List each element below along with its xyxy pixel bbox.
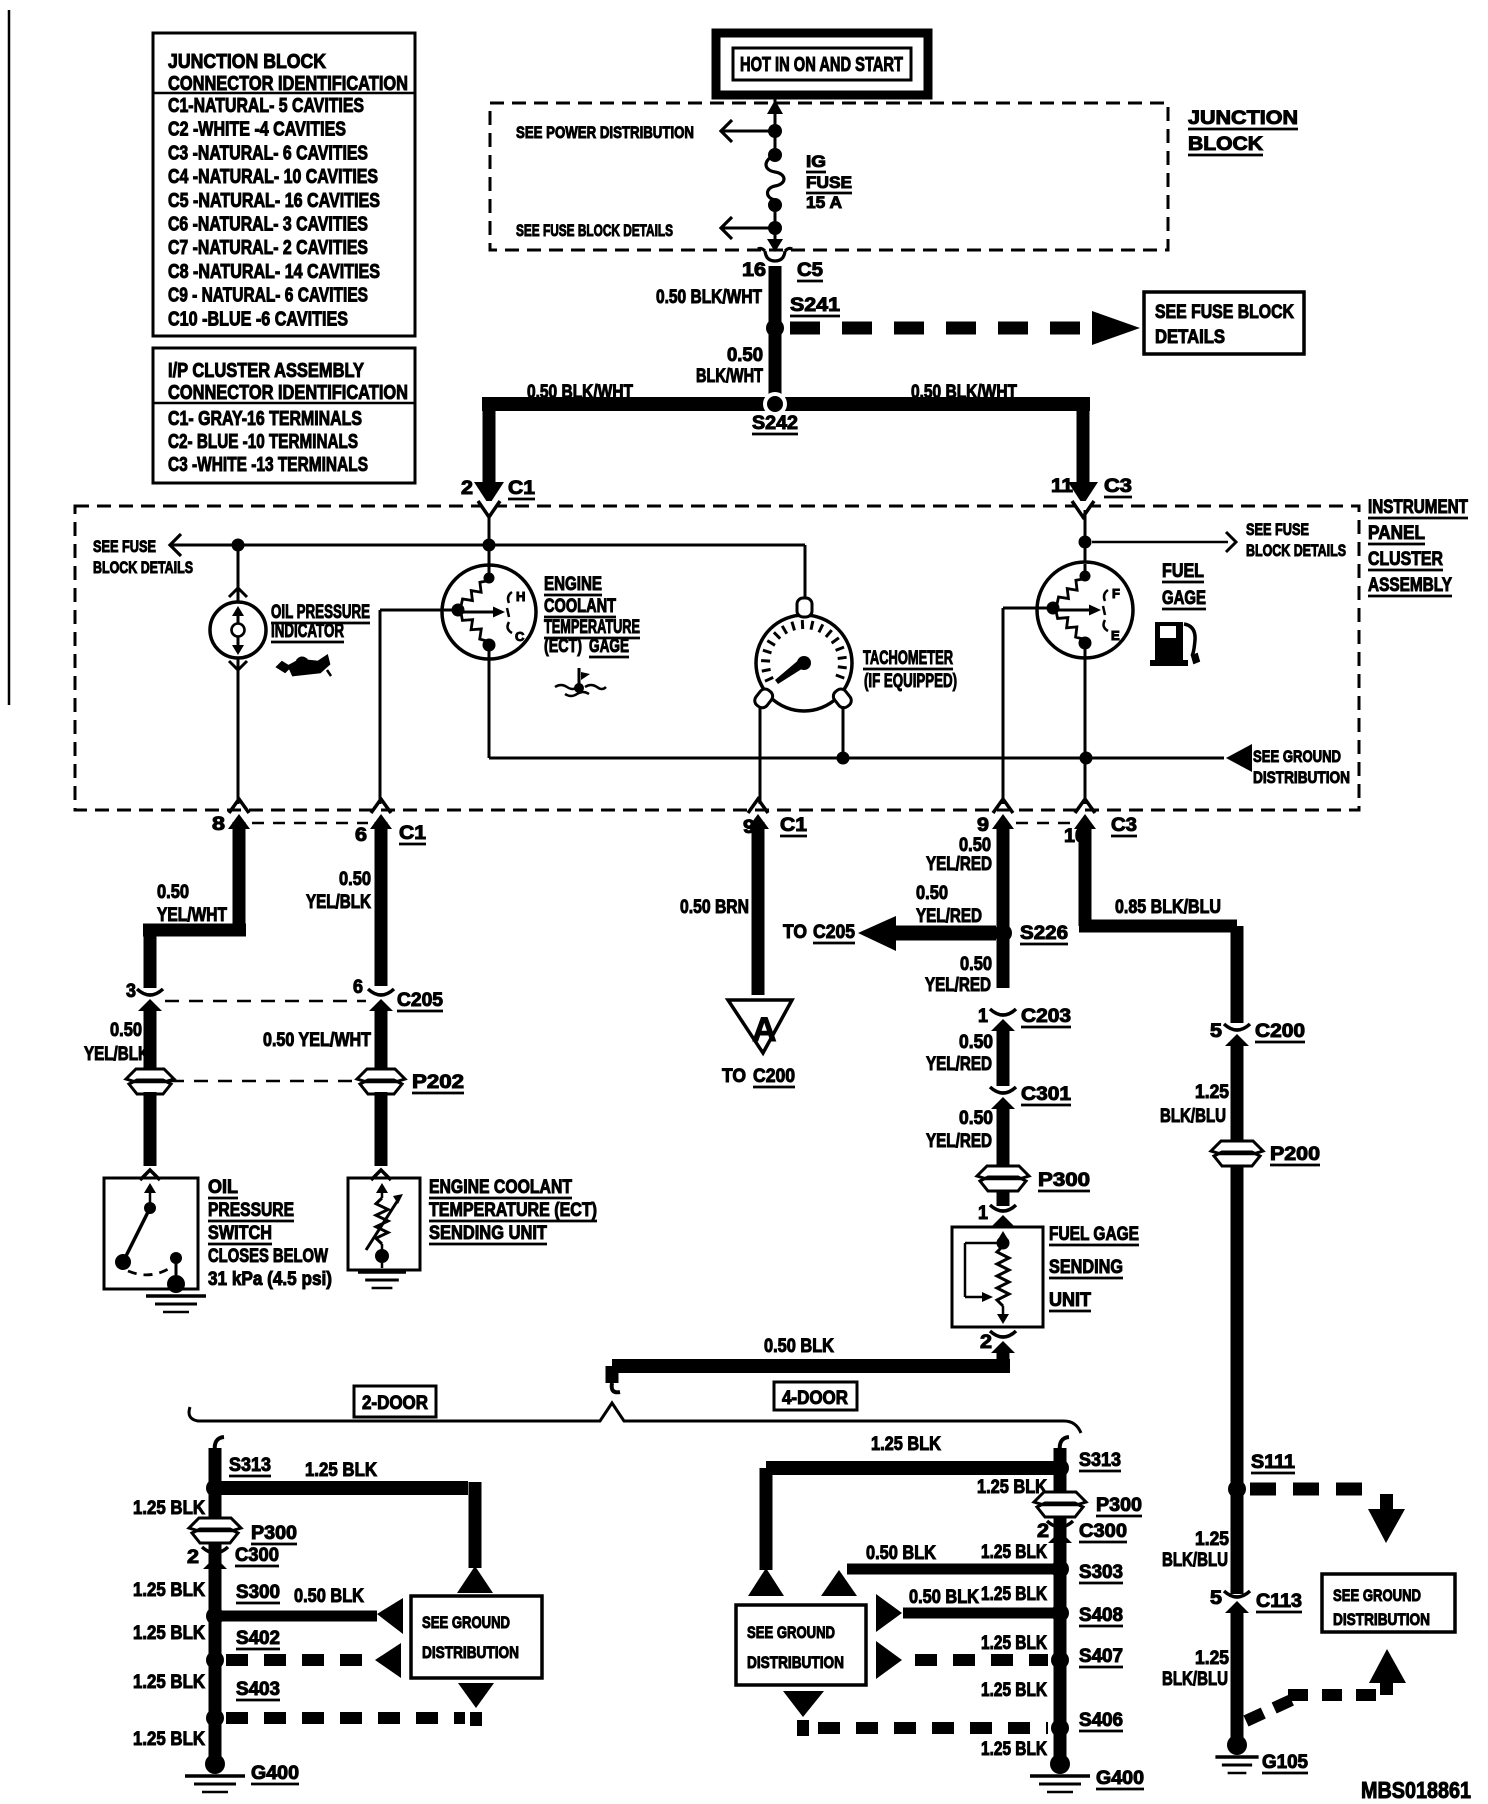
svg-text:P300: P300 (251, 1523, 297, 1544)
internal ground bus wire (489, 757, 1224, 760)
gauge scale marks H / C (508, 592, 512, 603)
connector fuel sender pin 1 (990, 1205, 1016, 1211)
svg-text:COOLANT: COOLANT (544, 596, 616, 617)
svg-text:ENGINE COOLANT: ENGINE COOLANT (429, 1177, 572, 1198)
fan arrow up to see ground distribution (458, 1683, 494, 1708)
see ground distribution box right (1322, 1574, 1455, 1632)
node fuse block tap (768, 221, 782, 235)
wire fork to junction (488, 516, 491, 545)
svg-text:JUNCTION BLOCK: JUNCTION BLOCK (168, 51, 326, 73)
grommet P200 (1211, 1141, 1263, 1154)
svg-text:BLK/BLU: BLK/BLU (1160, 1106, 1226, 1127)
fuse IG 15A (766, 155, 784, 205)
fuel pump icon (1155, 622, 1183, 662)
svg-text:C301: C301 (1021, 1084, 1071, 1105)
arrow down to C5 (767, 239, 783, 252)
svg-text:1.25 BLK: 1.25 BLK (981, 1542, 1047, 1563)
tachometer top terminal (797, 598, 812, 617)
fuel gage sending unit box (952, 1227, 1043, 1327)
svg-text:GAGE: GAGE (589, 636, 629, 657)
wire 1.25 BLK to ground distribution (215, 1481, 468, 1495)
dashed connector link C1 pins 8-6 (252, 822, 368, 825)
svg-text:SENDING: SENDING (1049, 1257, 1123, 1278)
node fuel gauge ground (1080, 752, 1093, 765)
wire 0.50 YEL/BLK pin 6 (375, 822, 388, 986)
svg-text:16: 16 (742, 260, 766, 281)
svg-text:8: 8 (212, 814, 225, 835)
svg-text:S226: S226 (1020, 923, 1068, 944)
ground at ECT sending unit (358, 1270, 406, 1274)
svg-text:C2 -WHITE -4 CAVITIES: C2 -WHITE -4 CAVITIES (168, 119, 346, 141)
ground at oil pressure switch (146, 1294, 206, 1298)
fan arrow to see ground distribution (457, 1566, 493, 1593)
svg-text:15 A: 15 A (806, 193, 842, 212)
2-door ground wire S313 branch (215, 1437, 224, 1452)
svg-text:0.50: 0.50 (157, 882, 189, 903)
switch contact right (170, 1252, 182, 1264)
svg-text:MBS018861: MBS018861 (1361, 1777, 1471, 1803)
arrow up into cluster pin x=758 (747, 814, 769, 829)
wire 0.50 BRN pin 9 (752, 822, 765, 995)
svg-text:2-DOOR: 2-DOOR (362, 1393, 428, 1414)
svg-text:PANEL: PANEL (1368, 523, 1425, 544)
svg-text:DISTRIBUTION: DISTRIBUTION (1253, 768, 1350, 787)
svg-text:BLOCK: BLOCK (1188, 134, 1263, 155)
fan arrow to see ground distribution (377, 1598, 403, 1634)
svg-text:DISTRIBUTION: DISTRIBUTION (747, 1653, 844, 1672)
svg-text:SEE GROUND: SEE GROUND (1253, 747, 1341, 766)
svg-text:ASSEMBLY: ASSEMBLY (1368, 575, 1452, 596)
svg-text:C113: C113 (1256, 1591, 1302, 1612)
arrow see power distribution (721, 120, 732, 142)
svg-text:0.85 BLK/BLU: 0.85 BLK/BLU (1115, 897, 1221, 918)
wire 0.50 BLK (847, 1564, 1060, 1575)
svg-text:JUNCTION: JUNCTION (1188, 108, 1298, 129)
tachometer right terminal (831, 687, 854, 711)
connector C203 pin 1 (990, 1009, 1016, 1015)
svg-text:1: 1 (978, 1006, 988, 1027)
svg-text:1.25 BLK: 1.25 BLK (305, 1460, 377, 1481)
ECT sender variable resistor (376, 1198, 388, 1244)
svg-text:S303: S303 (1079, 1562, 1123, 1583)
wire ECT gauge to pin 6 (380, 609, 458, 612)
internal feed wire to see fuse block details (170, 544, 805, 547)
splice S242 (767, 396, 783, 412)
fan arrow dashed (876, 1641, 902, 1679)
dashed wire S407 (915, 1654, 1048, 1666)
connector fork at cluster bottom x=239 (229, 799, 249, 813)
svg-text:1.25 BLK: 1.25 BLK (871, 1434, 941, 1455)
svg-text:(IF EQUIPPED): (IF EQUIPPED) (864, 671, 957, 692)
ground node G400 2-door (205, 1754, 225, 1774)
svg-text:DETAILS: DETAILS (1155, 327, 1225, 348)
wire 1.25 BLK to ground distribution (766, 1461, 1060, 1475)
I/P cluster assembly connector identification table (153, 348, 415, 483)
splice S406 (1051, 1719, 1069, 1737)
svg-text:1.25 BLK: 1.25 BLK (133, 1672, 205, 1693)
svg-text:S300: S300 (236, 1582, 280, 1603)
svg-text:11: 11 (1051, 476, 1073, 497)
svg-text:0.50: 0.50 (960, 954, 992, 975)
svg-text:IG: IG (806, 152, 826, 171)
oil pressure indicator lamp (237, 545, 240, 602)
arrow up into cluster pin x=239 (228, 814, 250, 829)
svg-text:SEE GROUND: SEE GROUND (422, 1613, 510, 1632)
svg-text:0.50 BLK: 0.50 BLK (764, 1336, 834, 1357)
fuel gauge (1037, 562, 1133, 658)
wire to C5 (774, 228, 777, 244)
svg-text:FUEL: FUEL (1162, 561, 1204, 582)
connector C200 pin 5 (1224, 1024, 1250, 1030)
node fuse top (768, 148, 782, 162)
svg-text:BLK/WHT: BLK/WHT (696, 366, 763, 387)
svg-text:5: 5 (1210, 1021, 1222, 1042)
dashed connector link C205 (165, 1000, 366, 1003)
instrument panel cluster assembly dashed outline (75, 506, 1359, 810)
svg-text:C205: C205 (397, 990, 443, 1011)
svg-text:DISTRIBUTION: DISTRIBUTION (422, 1643, 519, 1662)
svg-text:H: H (516, 589, 525, 604)
connector fuel sender pin 2 (990, 1331, 1016, 1337)
node fuse details tap (1079, 536, 1092, 549)
svg-text:UNIT: UNIT (1049, 1290, 1091, 1311)
fan arrow see ground distribution (1226, 744, 1252, 772)
node oil lamp feed (232, 539, 245, 552)
engine coolant temperature gauge (488, 545, 491, 566)
svg-text:1.25 BLK: 1.25 BLK (133, 1580, 205, 1601)
svg-text:G105: G105 (1262, 1752, 1308, 1773)
svg-text:2: 2 (187, 1547, 199, 1568)
svg-text:S313: S313 (229, 1455, 271, 1476)
fuel sender node (997, 1237, 1010, 1250)
wire (774, 131, 777, 155)
svg-text:1: 1 (978, 1203, 988, 1224)
svg-text:A: A (752, 1011, 777, 1049)
svg-text:1.25 BLK: 1.25 BLK (981, 1633, 1047, 1654)
svg-text:CLOSES BELOW: CLOSES BELOW (208, 1246, 328, 1267)
ECT sending unit box (348, 1178, 420, 1270)
grommet P202 right (357, 1069, 405, 1082)
arrow left see fuse block details (170, 534, 181, 556)
tachometer needle (775, 658, 808, 684)
svg-text:3: 3 (126, 981, 136, 1002)
svg-text:YEL/WHT: YEL/WHT (157, 905, 227, 926)
svg-text:TO: TO (722, 1066, 746, 1087)
wire 0.85 BLK/BLU pin 10 (1079, 824, 1092, 926)
wire (375, 1010, 388, 1068)
wire 0.50 YEL/RED (997, 1030, 1010, 1086)
svg-text:0.50: 0.50 (339, 869, 371, 890)
svg-text:0.50: 0.50 (959, 1108, 993, 1129)
ground node G400 4-door (1050, 1754, 1070, 1774)
svg-text:ENGINE: ENGINE (544, 574, 602, 595)
svg-text:0.50: 0.50 (959, 1032, 993, 1053)
svg-text:S241: S241 (790, 295, 840, 316)
splice S111 (1228, 1480, 1246, 1498)
svg-text:BLK/BLU: BLK/BLU (1162, 1669, 1228, 1690)
svg-text:C200: C200 (1255, 1021, 1305, 1042)
arrow TO C205 (858, 916, 896, 951)
connector C5 pin 16 fork (758, 248, 792, 261)
svg-text:C3: C3 (1111, 815, 1137, 836)
svg-text:S111: S111 (1251, 1452, 1295, 1473)
svg-text:BLOCK DETAILS: BLOCK DETAILS (93, 558, 193, 577)
splice S407 (1051, 1651, 1069, 1669)
connector C113 pin 5 (1224, 1591, 1250, 1597)
node fuse bottom (768, 198, 782, 212)
svg-text:CONNECTOR IDENTIFICATION: CONNECTOR IDENTIFICATION (168, 73, 408, 95)
svg-text:TEMPERATURE: TEMPERATURE (544, 617, 640, 638)
svg-text:1.25 BLK: 1.25 BLK (981, 1739, 1047, 1760)
svg-text:TACHOMETER: TACHOMETER (863, 648, 953, 669)
svg-text:SEE FUSE BLOCK: SEE FUSE BLOCK (1155, 302, 1294, 323)
svg-text:0.50 BLK/WHT: 0.50 BLK/WHT (911, 382, 1017, 403)
arrow up into cluster pin x=1003 (992, 814, 1014, 829)
thermistor arrow (366, 1200, 398, 1250)
svg-text:1.25 BLK: 1.25 BLK (133, 1498, 205, 1519)
svg-text:2: 2 (1037, 1521, 1049, 1542)
wire (997, 1190, 1010, 1206)
dashed branch diagonal (1246, 1697, 1298, 1721)
svg-text:6: 6 (355, 825, 367, 846)
svg-text:C1: C1 (508, 478, 535, 499)
ground G400 (185, 1774, 245, 1778)
svg-text:S408: S408 (1079, 1605, 1123, 1626)
fan arrow dashed to see ground distribution (375, 1643, 401, 1678)
svg-text:0.50: 0.50 (727, 345, 763, 366)
svg-text:C4 -NATURAL- 10 CAVITIES: C4 -NATURAL- 10 CAVITIES (168, 166, 378, 188)
connector C205 pin 6 (368, 989, 394, 995)
thermistor arrowhead (393, 1194, 403, 1204)
ground G400 4-door (1030, 1774, 1090, 1778)
switch contact top (144, 1202, 156, 1214)
svg-text:5: 5 (1210, 1588, 1222, 1609)
HOT IN ON AND START feed box (716, 33, 928, 95)
svg-text:YEL/RED: YEL/RED (926, 1131, 992, 1152)
fan arrow to see ground distribution (821, 1570, 857, 1596)
connector C301 (990, 1087, 1016, 1093)
svg-text:SEE FUSE BLOCK DETAILS: SEE FUSE BLOCK DETAILS (516, 221, 673, 240)
svg-text:E: E (1111, 628, 1120, 643)
connector C300 pin 2 (202, 1547, 228, 1553)
splice S402 (206, 1651, 224, 1669)
see ground distribution box 4-door (736, 1605, 866, 1685)
switch travel arc (128, 1268, 170, 1275)
junction block connector identification table (153, 33, 415, 336)
svg-text:C203: C203 (1021, 1006, 1071, 1027)
svg-text:P300: P300 (1096, 1495, 1142, 1516)
svg-text:C: C (515, 629, 525, 644)
4-door ground wire S313 branch (1060, 1437, 1069, 1452)
tachometer wire to pin 9 C1 (759, 706, 762, 804)
wire 0.50 YEL/RED pin 9 C3 (997, 824, 1010, 988)
svg-text:C5 -NATURAL- 16 CAVITIES: C5 -NATURAL- 16 CAVITIES (168, 190, 380, 212)
wire (144, 1010, 157, 1068)
4-DOOR label box (774, 1382, 857, 1410)
2-DOOR label box (354, 1386, 436, 1417)
wire 0.50 BLK (903, 1608, 1060, 1619)
svg-text:1.25 BLK: 1.25 BLK (133, 1623, 205, 1644)
splice S403 (206, 1709, 224, 1727)
arrow down see ground distribution (1368, 1509, 1405, 1543)
svg-text:C205: C205 (813, 922, 855, 943)
dashed wire to ground distribution (1250, 1483, 1378, 1496)
dashed wire S402 (226, 1654, 362, 1666)
wire 1.25 BLK/BLU (1231, 1610, 1244, 1740)
arrow see fuse block details (721, 217, 732, 239)
tachometer ground wire (842, 706, 845, 758)
terminal at ECT sending unit (371, 1170, 391, 1180)
svg-text:S407: S407 (1079, 1646, 1123, 1667)
splice S241 (766, 319, 784, 337)
option brace 2-door / 4-door (189, 1403, 1081, 1433)
connector fork at cluster bottom x=1003 (993, 799, 1013, 813)
wire (769, 398, 782, 404)
wire 0.50 YEL/RED (997, 1108, 1010, 1166)
wire TO C205 (896, 926, 996, 941)
svg-text:P300: P300 (1038, 1170, 1090, 1191)
wire lamp to pin 8 (237, 658, 240, 804)
svg-text:TEMPERATURE (ECT): TEMPERATURE (ECT) (429, 1200, 597, 1221)
svg-text:C3: C3 (1104, 476, 1132, 497)
wire to tachometer (804, 545, 807, 599)
node ECT feed (483, 539, 496, 552)
svg-text:S242: S242 (752, 413, 798, 434)
connector C205 pin 3 (137, 989, 163, 995)
svg-text:0.50: 0.50 (110, 1020, 142, 1041)
oil can icon (289, 656, 329, 675)
svg-text:C200: C200 (753, 1066, 795, 1087)
svg-text:2: 2 (461, 478, 473, 499)
svg-text:4-DOOR: 4-DOOR (782, 1388, 848, 1409)
svg-text:0.50 BLK: 0.50 BLK (866, 1543, 936, 1564)
terminal at oil pressure switch (140, 1170, 160, 1180)
svg-text:C3 -NATURAL- 6 CAVITIES: C3 -NATURAL- 6 CAVITIES (168, 142, 368, 164)
svg-text:0.50: 0.50 (916, 883, 948, 904)
svg-text:SEE GROUND: SEE GROUND (747, 1623, 835, 1642)
wire jog right (1079, 920, 1237, 933)
node power distribution tap (768, 124, 782, 138)
svg-text:0.50 BLK/WHT: 0.50 BLK/WHT (527, 382, 633, 403)
grommet P300 (977, 1166, 1029, 1179)
dashed grommet link (170, 1080, 357, 1083)
svg-text:C10 -BLUE -6 CAVITIES: C10 -BLUE -6 CAVITIES (168, 308, 348, 330)
wire (774, 205, 777, 228)
see ground distribution box 2-door (411, 1596, 542, 1678)
svg-text:1.25 BLK: 1.25 BLK (981, 1680, 1047, 1701)
svg-text:FUSE: FUSE (806, 173, 852, 192)
arrow up into hot box (767, 100, 783, 114)
svg-text:GAGE: GAGE (1162, 588, 1206, 609)
wire 1.25 BLK/BLU (1231, 1165, 1244, 1594)
splice S300 (206, 1607, 224, 1625)
svg-text:SEE POWER DISTRIBUTION: SEE POWER DISTRIBUTION (516, 123, 694, 142)
svg-text:YEL/RED: YEL/RED (916, 906, 982, 927)
svg-text:C1-NATURAL- 5 CAVITIES: C1-NATURAL- 5 CAVITIES (168, 95, 364, 117)
dashed connector link C3 pins 9-10 (1016, 822, 1072, 825)
fan arrow to see ground distribution (748, 1568, 784, 1596)
svg-text:0.50 BLK/WHT: 0.50 BLK/WHT (656, 287, 762, 308)
svg-text:P200: P200 (1270, 1144, 1320, 1165)
dashed branch horizontal (1288, 1689, 1376, 1701)
see fuse block details box (1144, 292, 1304, 354)
svg-text:0.50 BLK: 0.50 BLK (909, 1587, 979, 1608)
left margin line (8, 10, 11, 705)
svg-text:OIL: OIL (208, 1177, 238, 1198)
connector fork C3 pin 11 at box edge (1072, 501, 1094, 517)
splice S226 (994, 924, 1012, 942)
svg-text:2: 2 (980, 1332, 992, 1353)
wire to see power distribution (737, 130, 775, 133)
svg-text:YEL/RED: YEL/RED (926, 1054, 992, 1075)
svg-text:SEE GROUND: SEE GROUND (1333, 1586, 1421, 1605)
svg-text:F: F (1112, 586, 1120, 601)
svg-text:C7 -NATURAL- 2 CAVITIES: C7 -NATURAL- 2 CAVITIES (168, 237, 368, 259)
connector fork C1 pin 2 at box edge (478, 501, 500, 517)
svg-text:C300: C300 (1079, 1521, 1127, 1542)
grommet P300 4-door (1034, 1492, 1086, 1505)
svg-text:C9 - NATURAL- 6 CAVITIES: C9 - NATURAL- 6 CAVITIES (168, 285, 368, 307)
wire end curl (612, 1383, 620, 1392)
svg-text:YEL/BLK: YEL/BLK (306, 892, 371, 913)
wire fuel gauge bottom to pin 10 (1084, 643, 1087, 804)
svg-text:SEE FUSE: SEE FUSE (1246, 520, 1309, 539)
wire to see fuse block details (1092, 541, 1228, 544)
svg-text:S406: S406 (1079, 1710, 1123, 1731)
wire (144, 1092, 157, 1166)
splice S303 (1051, 1560, 1069, 1578)
svg-text:G400: G400 (1096, 1768, 1144, 1789)
svg-text:0.50 BRN: 0.50 BRN (680, 897, 749, 918)
svg-text:FUEL GAGE: FUEL GAGE (1049, 1224, 1139, 1245)
svg-text:1.25 BLK: 1.25 BLK (981, 1584, 1047, 1605)
dashed wire S403 (226, 1712, 465, 1724)
svg-text:TO: TO (783, 922, 807, 943)
svg-text:C1: C1 (399, 823, 426, 844)
svg-text:0.50 BLK: 0.50 BLK (294, 1586, 364, 1607)
svg-text:BLK/BLU: BLK/BLU (1162, 1550, 1228, 1571)
wire 0.50 YEL/WHT pin 8 (233, 822, 246, 936)
svg-text:C6 -NATURAL- 3 CAVITIES: C6 -NATURAL- 3 CAVITIES (168, 214, 368, 236)
svg-text:PRESSURE: PRESSURE (208, 1200, 294, 1221)
svg-text:1.25: 1.25 (1195, 1082, 1229, 1103)
switch contact bottom left (115, 1254, 131, 1270)
arrow into C3 pin 11 (1068, 482, 1098, 505)
svg-text:YEL/RED: YEL/RED (926, 854, 992, 875)
wire jog left (143, 924, 246, 937)
svg-text:G400: G400 (251, 1763, 299, 1784)
svg-text:C1: C1 (780, 815, 807, 836)
svg-text:1.25 BLK: 1.25 BLK (133, 1729, 205, 1750)
svg-text:1.25: 1.25 (1195, 1529, 1229, 1550)
wire 0.50 BLK horizontal (612, 1359, 1010, 1373)
svg-text:CLUSTER: CLUSTER (1368, 549, 1443, 570)
fan arrow up from S406 (783, 1691, 824, 1717)
wire down to C3 pin 11 (1077, 397, 1090, 482)
arrow up see ground distribution (1369, 1649, 1406, 1683)
svg-text:0.50: 0.50 (959, 835, 991, 856)
svg-text:HOT IN ON AND START: HOT IN ON AND START (740, 54, 903, 76)
svg-text:S402: S402 (236, 1628, 280, 1649)
grommet P202 left (126, 1069, 174, 1082)
wire 0.50 BLK (997, 1350, 1010, 1366)
connector C300 pin 2 (1047, 1521, 1073, 1527)
svg-text:(ECT): (ECT) (544, 636, 582, 657)
tachometer left terminal (752, 687, 775, 711)
arrow into C1 pin 2 (474, 482, 504, 505)
ground G105 (1215, 1755, 1258, 1759)
splice S313 (1051, 1459, 1069, 1477)
